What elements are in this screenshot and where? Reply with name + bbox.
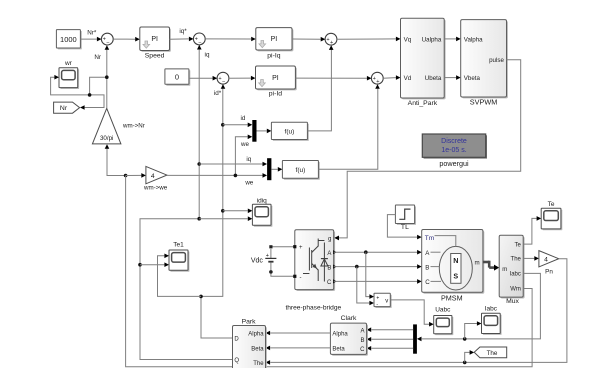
svg-text:PI: PI (151, 36, 158, 43)
transform block Clark (330, 315, 368, 356)
svg-text:Tm: Tm (425, 235, 434, 242)
svg-text:Mux: Mux (506, 298, 519, 305)
svg-text:pulse: pulse (489, 57, 504, 64)
svg-text:f(u): f(u) (296, 167, 306, 174)
node iq label near mux2 (246, 156, 251, 163)
svg-text:C: C (327, 280, 332, 286)
svg-text:PMSM: PMSM (441, 293, 463, 302)
wire id to mux1 (223, 123, 253, 128)
wire sum3 to Anti_Park Vq (337, 37, 401, 42)
svg-text:Vbeta: Vbeta (464, 75, 481, 82)
sum junction S2 (iq error) (193, 33, 205, 46)
wire f(u)1 to sum3 (307, 45, 333, 131)
wire 30/pi output to sum1 (105, 45, 110, 108)
wire TL to PMSM Tm (387, 215, 421, 240)
svg-text:A: A (327, 251, 331, 257)
node id label (240, 115, 245, 122)
gain 30/pi (wm->Nr) (92, 108, 144, 144)
svg-text:Valpha: Valpha (464, 36, 483, 43)
svg-text:Vq: Vq (404, 36, 412, 43)
wire sum2 to pi-Iq (205, 37, 256, 42)
svg-text:Speed: Speed (145, 53, 165, 60)
wire Ualpha to Valpha (444, 37, 461, 42)
function block f(u) upper (271, 122, 308, 141)
goto tag The (474, 347, 507, 358)
wire Ubeta to Vbeta (444, 75, 461, 80)
wire branch to The tag (465, 350, 475, 362)
svg-text:SVPWM: SVPWM (470, 98, 498, 107)
svg-text:The: The (253, 361, 264, 367)
node iq label near sum2 (205, 51, 210, 58)
svg-text:4: 4 (151, 173, 155, 180)
svg-text:wr: wr (64, 60, 73, 67)
demux block Mux (499, 235, 524, 305)
svg-text:D: D (234, 337, 239, 343)
scope Te1 (169, 242, 189, 272)
scope Te (541, 201, 562, 231)
wire tap B to voltmeter - (357, 267, 374, 306)
svg-text:Alpha: Alpha (332, 331, 348, 337)
subsystem U1 Anti_Park (401, 18, 446, 107)
wire 1000 to sum1 (80, 37, 101, 42)
wire sum5 to Anti_Park Vd (383, 75, 400, 80)
svg-text:4: 4 (544, 256, 548, 263)
wire iq to Te1 scope (140, 262, 169, 267)
wire mux2 to f(u)2 (271, 167, 282, 172)
constant block 0 (165, 69, 190, 86)
wire iq feedback from Park Q (138, 44, 232, 360)
svg-text:N: N (453, 256, 458, 265)
subsystem U2 SVPWM (461, 20, 508, 107)
wire mux1 to f(u)1 (257, 129, 272, 134)
node Nr* label (87, 30, 97, 37)
node iq* label (179, 28, 187, 35)
svg-text:three-phase-bridge: three-phase-bridge (285, 304, 341, 311)
svg-text:+: + (299, 245, 303, 251)
PI controller pi-Iq (256, 28, 294, 60)
wire iq to idiq scope (199, 216, 252, 221)
wire demux to Clark B (367, 337, 414, 342)
wire f(u)2 to sum5 (318, 84, 379, 169)
svg-text:Wm: Wm (510, 287, 521, 293)
wire id feedback from Park D (199, 84, 232, 338)
demux bar (413, 324, 417, 353)
mux M2 (iq,we) (267, 158, 271, 180)
svg-text:pi-Iq: pi-Iq (267, 52, 280, 59)
svg-text:Iabc: Iabc (485, 306, 498, 313)
svg-text:C: C (360, 347, 365, 353)
wire bridge g input arrow (334, 236, 339, 241)
svg-text:1e-05 s.: 1e-05 s. (441, 147, 466, 154)
wire phase B bridge to PMSM (334, 264, 422, 269)
svg-text:TL: TL (401, 224, 409, 231)
wire Clark Alpha to Park (266, 331, 331, 336)
goto tag Nr (54, 102, 80, 113)
wire phase C bridge to PMSM (334, 279, 422, 284)
svg-text:Vd: Vd (404, 75, 412, 82)
svg-text:pi-Id: pi-Id (269, 91, 282, 98)
svg-text:-: - (300, 275, 302, 281)
svg-text:Ubeta: Ubeta (425, 75, 442, 82)
wire demux to Clark A (367, 327, 414, 332)
transform block Park (233, 318, 267, 368)
wire Speed to sum2 (170, 37, 194, 42)
svg-text:Park: Park (242, 318, 257, 325)
wire we to mux bars (167, 135, 267, 178)
sum junction S5 (Vd add) (371, 72, 383, 85)
step source TL (395, 205, 416, 231)
svg-text:id: id (240, 115, 245, 122)
wire Iabc line (417, 273, 541, 341)
svg-text:Clark: Clark (341, 315, 357, 322)
svg-text:−: − (222, 79, 225, 85)
wire pi-Iq to sum3 (292, 37, 325, 42)
svg-text:Alpha: Alpha (248, 331, 264, 337)
wire 0 to sum4 (189, 76, 217, 81)
svg-text:S: S (453, 272, 458, 281)
svg-text:we: we (240, 141, 249, 148)
svg-text:The: The (511, 257, 522, 263)
bus wire m to Mux (483, 261, 499, 271)
svg-text:Te1: Te1 (173, 242, 184, 249)
sum junction S3 (Vq add) (325, 33, 337, 46)
scope Iabc (482, 306, 502, 335)
wire Pn to The line (266, 259, 567, 365)
svg-text:iq*: iq* (179, 28, 187, 35)
wire phase A bridge to PMSM (334, 250, 422, 255)
node we label upper (240, 141, 249, 148)
wire sum4 to pi-Id (229, 76, 256, 81)
scope Uabc (434, 306, 454, 335)
PI controller pi-Id (256, 66, 297, 98)
svg-text:Vdc: Vdc (251, 257, 264, 264)
svg-text:A: A (360, 328, 364, 334)
svg-text:m: m (474, 260, 479, 267)
svg-text:wm->Nr: wm->Nr (122, 122, 145, 129)
svg-text:+: + (376, 79, 379, 85)
svg-text:iq: iq (246, 156, 251, 163)
svg-text:The: The (487, 350, 498, 357)
svg-text:idiq: idiq (257, 197, 268, 204)
scope wr (59, 60, 79, 89)
gain Pn (539, 251, 559, 276)
svg-text:−: − (106, 40, 109, 46)
svg-text:v: v (385, 299, 388, 305)
scope idiq (252, 197, 272, 226)
svg-text:Ualpha: Ualpha (422, 36, 442, 43)
wire id branch to Te1 scope (158, 254, 202, 297)
svg-text:C: C (425, 279, 430, 286)
svg-text:30/pi: 30/pi (100, 135, 113, 142)
svg-text:wm->we: wm->we (143, 185, 168, 192)
svg-text:iq: iq (205, 51, 210, 58)
node Nr wire label (94, 54, 101, 61)
svg-text:Uabc: Uabc (435, 306, 451, 313)
wire branch to Iabc scope (465, 321, 482, 339)
node we label lower (244, 180, 253, 187)
wire tap A to voltmeter + (366, 252, 374, 299)
svg-text:+: + (330, 40, 333, 46)
svg-text:powergui: powergui (439, 159, 469, 168)
three-phase-bridge block (285, 230, 341, 312)
svg-text:Iabc: Iabc (510, 272, 521, 278)
svg-text:+: + (266, 253, 269, 259)
svg-text:B: B (360, 338, 364, 344)
svg-text:PI: PI (272, 75, 279, 82)
node id* label (214, 90, 222, 97)
wire id to idiq scope (223, 209, 253, 214)
svg-text:Anti_Park: Anti_Park (408, 100, 438, 107)
svg-text:Beta: Beta (251, 346, 264, 352)
wire The to Pn gain (523, 256, 539, 261)
svg-text:Te: Te (548, 201, 555, 208)
wire voltmeter to Uabc scope (390, 300, 433, 327)
wire Wm feedback (126, 176, 532, 367)
voltage measurement block v (374, 293, 392, 308)
svg-text:Discrete: Discrete (441, 138, 467, 145)
wire iq to mux2 (199, 162, 267, 167)
svg-text:we: we (244, 180, 253, 187)
svg-text:Beta: Beta (332, 346, 345, 352)
wire Clark Beta to Park (266, 346, 331, 351)
svg-text:B: B (425, 264, 429, 271)
function block f(u) lower (282, 161, 319, 180)
wire wm feedback to gain4 input (126, 173, 146, 178)
svg-text:Nr: Nr (60, 105, 68, 112)
wire wm feedback to 30/pi input (105, 144, 128, 177)
svg-text:Nr*: Nr* (87, 30, 97, 37)
svg-text:0: 0 (175, 72, 179, 81)
svg-text:+: + (376, 295, 379, 301)
svg-text:m: m (502, 267, 507, 273)
DC source Vdc (251, 245, 295, 276)
svg-text:Q: Q (234, 358, 239, 364)
wire Te to Te scope (523, 216, 541, 244)
svg-text:f(u): f(u) (285, 128, 295, 135)
wire sum1 to Speed PI (113, 37, 140, 42)
sum junction S1 (speed error) (101, 33, 113, 46)
sum junction S4 (id error) (217, 72, 229, 85)
constant block 1000 (56, 30, 81, 50)
wire Nr feedback to wr scope and Nr tag (51, 75, 107, 110)
wire demux to Clark C (367, 346, 414, 351)
svg-text:Nr: Nr (94, 54, 101, 61)
wire pulse to bridge g (334, 60, 520, 240)
PI controller Speed (140, 27, 171, 60)
svg-text:1000: 1000 (60, 35, 77, 44)
gain 4 (wm->we) (143, 166, 168, 191)
svg-text:PI: PI (271, 36, 278, 43)
svg-text:id*: id* (214, 90, 222, 97)
svg-text:Te: Te (515, 242, 522, 248)
mux M1 (id,we) (252, 120, 256, 142)
svg-text:Pn: Pn (545, 268, 553, 275)
wire pi-Id to sum5 (295, 76, 371, 81)
powergui block (Discrete 1e-05 s.) (422, 134, 487, 168)
svg-text:g: g (328, 236, 331, 242)
motor PMSM (422, 230, 485, 303)
